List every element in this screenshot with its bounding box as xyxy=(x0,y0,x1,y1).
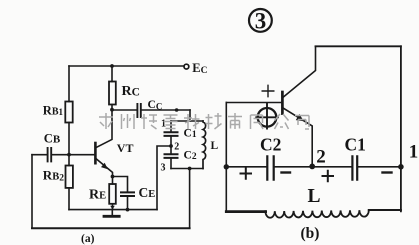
terminal EC circle xyxy=(184,64,189,69)
wire inductor left lead (b) xyxy=(226,210,265,213)
capacitor CE xyxy=(121,192,134,196)
resistor RE xyxy=(109,184,116,204)
svg-text:RB1: RB1 xyxy=(43,103,64,117)
wire C1-C2 middle xyxy=(170,137,172,154)
emitter arrowhead (b) xyxy=(296,114,304,121)
resistor RB1 xyxy=(65,102,72,123)
wire collector to CC xyxy=(112,109,137,111)
transistor (b) emitter lead with arrow xyxy=(283,108,312,167)
wire C2 bottom lead xyxy=(170,159,172,169)
circled-plus phase marker xyxy=(258,108,277,127)
capacitor C2 (a) xyxy=(165,154,178,158)
svg-text:VT: VT xyxy=(117,141,134,155)
capacitor CC xyxy=(137,104,140,117)
resistor RC xyxy=(109,82,116,105)
transistor (b) base bar xyxy=(281,92,284,114)
svg-text:L: L xyxy=(211,140,219,152)
wire RC top xyxy=(111,66,113,82)
inductor L (a) xyxy=(203,121,206,169)
svg-text:CE: CE xyxy=(139,185,156,200)
transistor VT collector lead xyxy=(96,105,112,148)
svg-text:2: 2 xyxy=(316,147,326,168)
capacitor C1 (a) xyxy=(165,132,178,136)
node base junction xyxy=(67,153,71,157)
ground symbol xyxy=(111,210,113,215)
svg-text:C2: C2 xyxy=(184,150,197,163)
node emitter junction xyxy=(111,175,115,179)
wire right rail (b) xyxy=(400,46,402,211)
svg-text:2: 2 xyxy=(174,142,179,153)
wire base left to CB xyxy=(32,154,47,156)
wire tank bottom to ground rail xyxy=(189,169,191,229)
wire feed down xyxy=(189,110,191,121)
resistor RB2 xyxy=(66,166,73,188)
svg-text:RE: RE xyxy=(89,188,106,203)
wire C1 top lead xyxy=(170,121,172,132)
wire base lead (b) xyxy=(226,102,281,104)
inductor L (b) xyxy=(265,210,368,218)
svg-text:L: L xyxy=(308,186,321,207)
node collector-supply junction xyxy=(110,64,114,68)
wire CB to base xyxy=(52,154,94,156)
transistor VT emitter lead with arrow xyxy=(96,159,113,184)
capacitor C1 (b) xyxy=(352,156,357,179)
wire ground rail xyxy=(69,209,157,211)
plus polarity marker at base xyxy=(262,85,274,96)
node CE-ground junction xyxy=(126,208,130,212)
svg-text:RB2: RB2 xyxy=(43,168,64,184)
svg-text:C1: C1 xyxy=(184,128,197,141)
node on feed wire xyxy=(175,108,179,112)
capacitor C2 (b) xyxy=(267,156,273,179)
wire tank top rail xyxy=(171,120,203,122)
svg-text:EC: EC xyxy=(192,61,207,76)
node left junction (b) xyxy=(224,164,229,169)
wire top rail (b) xyxy=(316,45,401,47)
wire top supply rail (a) xyxy=(69,65,184,67)
wire bottom rail (a) xyxy=(32,227,190,229)
wire node2 feedback branch xyxy=(157,146,171,210)
wire left rail xyxy=(31,155,33,229)
capacitor CB xyxy=(48,148,52,161)
wire tank bottom rail xyxy=(171,168,203,170)
wire RB2 bottom xyxy=(68,188,70,210)
wire left rail (b) xyxy=(225,103,227,212)
emitter arrowhead xyxy=(101,163,108,169)
wire CE bottom xyxy=(127,197,129,210)
svg-text:3: 3 xyxy=(161,163,166,174)
circled figure number 3 xyxy=(249,9,272,32)
wire tank rail segment middle (b) xyxy=(275,166,352,168)
svg-text:C1: C1 xyxy=(345,135,366,155)
svg-text:CB: CB xyxy=(44,131,61,145)
node tank bottom junction xyxy=(188,167,192,171)
svg-text:3: 3 xyxy=(255,9,266,34)
svg-text:(b): (b) xyxy=(301,225,320,242)
wire inductor right lead (b) xyxy=(369,209,401,211)
wire tank rail segment right (b) xyxy=(358,166,401,168)
polarity minus right of C2 xyxy=(282,171,291,173)
wire RE bottom xyxy=(112,204,114,210)
node 1 junction (b) xyxy=(398,164,404,170)
svg-text:C2: C2 xyxy=(260,135,281,155)
transistor (b) collector lead xyxy=(283,46,315,97)
wire RB1 bottom to base node xyxy=(68,123,70,166)
node collector junction xyxy=(110,108,114,112)
wire emitter to CE xyxy=(113,177,128,192)
wire RB1 top xyxy=(68,66,70,102)
svg-text:1: 1 xyxy=(409,142,419,163)
svg-text:1: 1 xyxy=(161,119,166,130)
svg-text:RC: RC xyxy=(122,84,140,99)
svg-text:(a): (a) xyxy=(81,233,95,245)
watermark 杭州将睿科技有限公司 xyxy=(99,113,309,129)
wire CC to tank xyxy=(142,109,190,111)
polarity plus left of C2 xyxy=(241,168,252,178)
node 2 junction (a) xyxy=(169,144,173,148)
polarity plus right of node 2 xyxy=(323,171,334,181)
wire tank rail segment left (b) xyxy=(226,166,266,168)
polarity minus left of node 1 xyxy=(383,171,392,173)
node 2 junction (b) xyxy=(309,164,315,170)
transistor VT base bar xyxy=(94,143,97,163)
